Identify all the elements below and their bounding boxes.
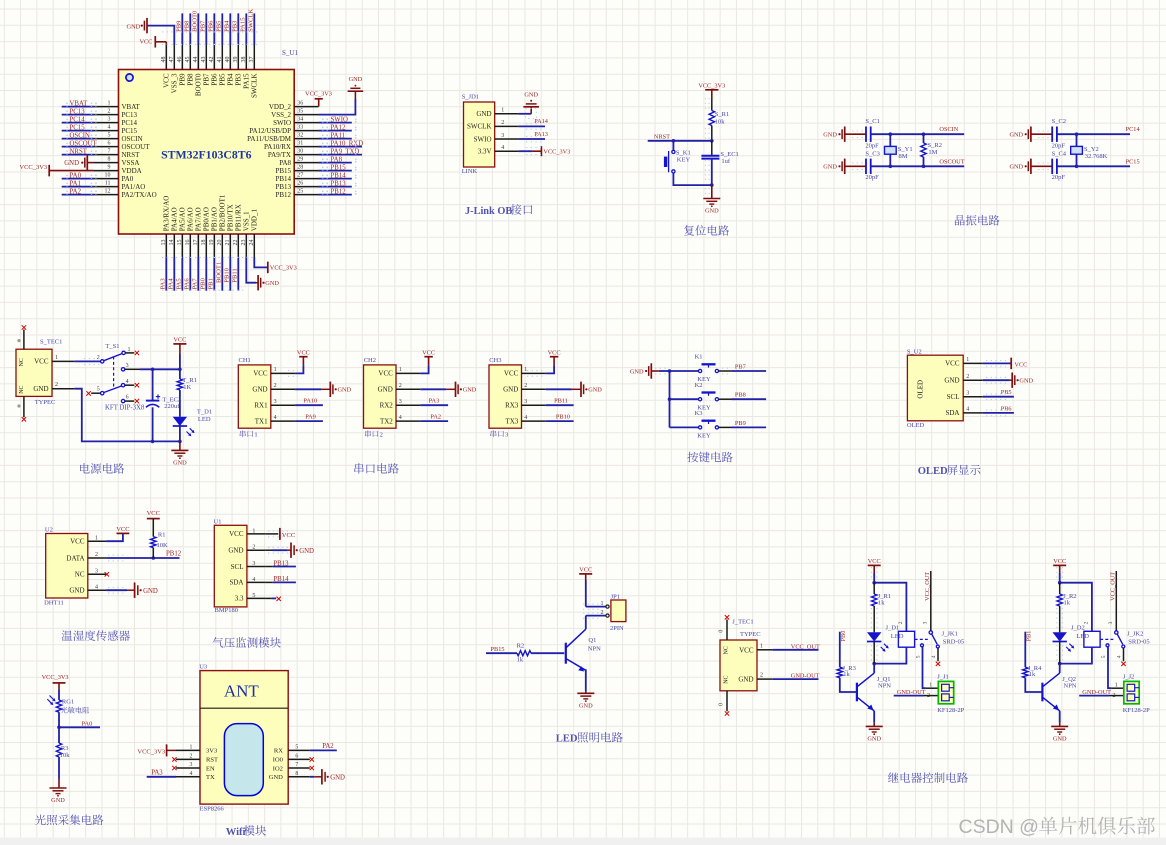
svg-text:1k: 1k <box>1064 600 1071 607</box>
svg-text:3.3: 3.3 <box>235 595 244 603</box>
svg-text:R1: R1 <box>158 531 166 538</box>
svg-text:GND: GND <box>463 387 477 394</box>
svg-text:20pF: 20pF <box>865 143 879 150</box>
svg-text:PB3: PB3 <box>235 73 243 86</box>
svg-text:2: 2 <box>966 374 969 380</box>
svg-text:NC: NC <box>19 358 25 366</box>
svg-text:3: 3 <box>108 116 111 122</box>
svg-text:2: 2 <box>274 383 277 389</box>
svg-text:11: 11 <box>105 180 111 186</box>
svg-text:LED: LED <box>556 734 578 745</box>
svg-text:VCC: VCC <box>147 510 160 517</box>
svg-text:2PIN: 2PIN <box>610 625 624 632</box>
svg-text:GND: GND <box>228 547 243 555</box>
svg-text:PB1/AO: PB1/AO <box>211 207 219 231</box>
svg-text:1M: 1M <box>928 149 937 156</box>
svg-text:2: 2 <box>601 610 604 616</box>
svg-text:PA12: PA12 <box>331 125 346 132</box>
svg-text:RX1: RX1 <box>254 402 268 410</box>
svg-text:OLED: OLED <box>916 380 924 399</box>
svg-text:2: 2 <box>252 545 255 551</box>
svg-text:VCC: VCC <box>579 566 592 573</box>
svg-text:PA0: PA0 <box>70 173 82 180</box>
svg-text:T_S1: T_S1 <box>105 343 119 350</box>
svg-text:GND: GND <box>476 110 491 118</box>
svg-text:GND: GND <box>173 460 187 467</box>
svg-text:PB12: PB12 <box>166 551 182 558</box>
svg-text:U2: U2 <box>45 527 53 534</box>
svg-text:ANT: ANT <box>224 681 260 700</box>
svg-text:OSCIN: OSCIN <box>939 126 958 133</box>
svg-text:S_Y1: S_Y1 <box>898 146 913 153</box>
svg-text:2: 2 <box>1083 621 1089 624</box>
svg-text:PA6: PA6 <box>184 278 191 290</box>
svg-text:NPN: NPN <box>1064 683 1077 690</box>
svg-text:PA2: PA2 <box>70 189 82 196</box>
svg-text:6: 6 <box>108 140 111 146</box>
svg-text:GND: GND <box>738 676 753 684</box>
svg-text:PA15: PA15 <box>240 17 247 32</box>
svg-text:Wifi: Wifi <box>226 827 246 838</box>
svg-text:6: 6 <box>126 395 129 401</box>
svg-text:4: 4 <box>1117 655 1123 658</box>
svg-text:PB6: PB6 <box>211 73 219 86</box>
svg-text:VSS_2: VSS_2 <box>271 111 291 119</box>
svg-text:PA9/TX: PA9/TX <box>268 151 291 159</box>
svg-text:28: 28 <box>297 164 303 170</box>
svg-text:GND: GND <box>705 208 719 215</box>
svg-text:LED: LED <box>1076 633 1089 640</box>
svg-text:PB9: PB9 <box>176 20 183 32</box>
svg-text:GND: GND <box>252 386 267 394</box>
svg-text:1: 1 <box>95 535 98 541</box>
svg-text:1: 1 <box>128 347 131 353</box>
svg-text:SWCLK: SWCLK <box>248 9 255 32</box>
svg-text:BOOT1: BOOT1 <box>216 262 223 283</box>
svg-text:TX2: TX2 <box>380 417 393 425</box>
svg-text:VCC: VCC <box>282 532 295 539</box>
svg-text:OSCOUT: OSCOUT <box>70 141 98 148</box>
svg-text:33: 33 <box>297 124 303 130</box>
svg-text:KFT DIP-3X8: KFT DIP-3X8 <box>105 405 145 412</box>
svg-text:220uf: 220uf <box>164 403 180 410</box>
svg-text:GND: GND <box>349 76 363 83</box>
svg-text:1k: 1k <box>843 671 850 678</box>
svg-text:45: 45 <box>185 57 191 63</box>
svg-text:NRST: NRST <box>122 151 141 159</box>
svg-text:PB7: PB7 <box>203 73 211 86</box>
svg-text:PB7: PB7 <box>735 363 746 370</box>
svg-text:VDD_1: VDD_1 <box>251 209 259 232</box>
svg-text:RX: RX <box>274 748 283 755</box>
svg-text:PB1: PB1 <box>1026 631 1033 642</box>
svg-text:LED: LED <box>198 416 211 423</box>
svg-text:4: 4 <box>966 407 969 413</box>
svg-text:23: 23 <box>241 240 247 246</box>
svg-text:21: 21 <box>225 240 231 246</box>
svg-text:VCC_3V3: VCC_3V3 <box>270 265 297 272</box>
svg-text:17: 17 <box>193 240 199 246</box>
svg-text:PA8: PA8 <box>331 157 343 164</box>
svg-text:VCC_3V3: VCC_3V3 <box>543 148 570 155</box>
svg-text:3: 3 <box>274 399 277 405</box>
svg-text:PB14: PB14 <box>273 576 289 583</box>
svg-text:39: 39 <box>233 57 239 63</box>
svg-text:1: 1 <box>274 367 277 373</box>
svg-text:PB2/BOOT1: PB2/BOOT1 <box>219 194 227 231</box>
svg-text:CSDN @: CSDN @ <box>959 816 1039 838</box>
svg-text:PB8: PB8 <box>184 20 191 32</box>
svg-text:22: 22 <box>233 240 239 246</box>
svg-text:2: 2 <box>189 754 192 760</box>
svg-text:VCC_OUT: VCC_OUT <box>924 572 931 601</box>
svg-text:VCC: VCC <box>253 370 268 378</box>
svg-text:15: 15 <box>177 240 183 246</box>
svg-text:1: 1 <box>189 745 192 751</box>
svg-text:1uf: 1uf <box>721 158 731 165</box>
svg-text:PA2: PA2 <box>430 414 441 421</box>
svg-text:GND: GND <box>1053 736 1067 743</box>
svg-text:7: 7 <box>108 148 111 154</box>
svg-text:S_R1: S_R1 <box>715 111 729 118</box>
svg-text:20: 20 <box>217 240 223 246</box>
svg-text:S_Y2: S_Y2 <box>1084 146 1099 153</box>
svg-text:RST: RST <box>206 757 218 764</box>
svg-text:OSCOUT: OSCOUT <box>122 143 151 151</box>
svg-text:PB13: PB13 <box>273 560 289 567</box>
svg-text:IO0: IO0 <box>273 757 283 764</box>
svg-text:0: 0 <box>719 630 725 633</box>
svg-text:PA1/AO: PA1/AO <box>122 183 146 191</box>
svg-text:5: 5 <box>97 387 100 393</box>
svg-text:8: 8 <box>295 771 298 777</box>
svg-text:GND: GND <box>1009 164 1023 171</box>
svg-text:VSS_3: VSS_3 <box>171 73 179 93</box>
svg-text:1: 1 <box>929 683 932 689</box>
svg-text:VCC: VCC <box>378 370 393 378</box>
svg-text:KEY: KEY <box>697 433 711 440</box>
svg-text:PA0: PA0 <box>82 720 93 727</box>
svg-text:PB14: PB14 <box>275 175 291 183</box>
svg-text:PA5: PA5 <box>176 278 183 290</box>
svg-text:PB0/AO: PB0/AO <box>203 207 211 231</box>
svg-text:PC15: PC15 <box>1126 158 1140 165</box>
svg-text:PB13: PB13 <box>275 183 291 191</box>
svg-text:PB6: PB6 <box>208 20 215 32</box>
svg-text:ESP8266: ESP8266 <box>200 806 225 813</box>
svg-text:OSCIN: OSCIN <box>122 135 143 143</box>
svg-text:CH2: CH2 <box>364 357 376 364</box>
svg-text:20pF: 20pF <box>1052 143 1066 150</box>
svg-text:1: 1 <box>601 601 604 607</box>
svg-text:T_R1: T_R1 <box>182 377 197 384</box>
svg-text:GND: GND <box>269 774 283 781</box>
svg-text:NC: NC <box>723 646 729 654</box>
svg-text:VCC_3V3: VCC_3V3 <box>137 748 165 755</box>
svg-text:VBAT: VBAT <box>70 101 89 108</box>
svg-text:3V3: 3V3 <box>206 748 217 755</box>
svg-text:3: 3 <box>189 762 192 768</box>
svg-text:3: 3 <box>501 133 504 139</box>
svg-text:25: 25 <box>297 188 303 194</box>
svg-text:VCC_3V3: VCC_3V3 <box>305 90 332 97</box>
svg-text:4: 4 <box>931 655 937 658</box>
svg-text:GND: GND <box>503 386 518 394</box>
svg-text:32.768K: 32.768K <box>1085 153 1108 160</box>
svg-text:PA3: PA3 <box>429 398 440 405</box>
svg-text:S_U1: S_U1 <box>282 49 298 57</box>
svg-text:4: 4 <box>108 124 111 130</box>
svg-text:PB8: PB8 <box>735 392 746 399</box>
svg-text:48: 48 <box>161 57 167 63</box>
svg-text:PB12: PB12 <box>331 189 347 196</box>
svg-text:GND: GND <box>588 387 602 394</box>
svg-text:NPN: NPN <box>878 683 891 690</box>
svg-text:SWIO: SWIO <box>331 117 348 124</box>
svg-text:S_U2: S_U2 <box>907 349 922 356</box>
svg-text:GND: GND <box>1009 132 1023 139</box>
svg-text:DHT11: DHT11 <box>44 599 64 606</box>
svg-text:J_JK1: J_JK1 <box>942 631 958 638</box>
svg-text:VCC: VCC <box>34 358 49 366</box>
svg-text:40: 40 <box>225 57 231 63</box>
svg-text:CH3: CH3 <box>489 357 501 364</box>
svg-text:VCC_3V3: VCC_3V3 <box>698 82 725 89</box>
svg-text:VCC_OUT: VCC_OUT <box>1110 572 1117 601</box>
svg-text:PB5: PB5 <box>1001 389 1012 396</box>
svg-text:2: 2 <box>108 108 111 114</box>
svg-text:PA15: PA15 <box>243 73 251 89</box>
svg-text:PA1: PA1 <box>70 181 81 188</box>
svg-text:14: 14 <box>169 240 175 246</box>
svg-text:RG1: RG1 <box>62 699 74 706</box>
svg-text:PA4: PA4 <box>168 278 175 290</box>
svg-text:47: 47 <box>169 57 175 63</box>
svg-text:PA2/TX/AO: PA2/TX/AO <box>122 191 157 199</box>
svg-text:TX1: TX1 <box>255 417 268 425</box>
svg-text:6: 6 <box>295 754 298 760</box>
svg-text:S_C1: S_C1 <box>865 118 879 125</box>
svg-text:BOOT0: BOOT0 <box>192 10 199 32</box>
svg-text:VCC: VCC <box>297 349 310 356</box>
svg-text:TYPEC: TYPEC <box>740 631 761 638</box>
svg-text:K2: K2 <box>695 382 703 389</box>
svg-text:37: 37 <box>249 57 255 63</box>
svg-text:8M: 8M <box>899 153 908 160</box>
svg-text:18: 18 <box>201 240 207 246</box>
svg-text:GND: GND <box>338 387 352 394</box>
svg-text:PB11/RX: PB11/RX <box>235 204 243 231</box>
svg-text:IO2: IO2 <box>273 765 283 772</box>
svg-text:PA10_RXD: PA10_RXD <box>331 141 364 148</box>
svg-text:4: 4 <box>524 415 527 421</box>
svg-text:8: 8 <box>108 156 111 162</box>
svg-text:1: 1 <box>1115 683 1118 689</box>
svg-text:VCC: VCC <box>116 526 129 533</box>
svg-text:42: 42 <box>209 57 215 63</box>
svg-text:NC: NC <box>19 385 25 393</box>
svg-text:GND: GND <box>51 797 65 804</box>
svg-text:41: 41 <box>217 57 223 63</box>
svg-text:GND: GND <box>127 23 141 30</box>
svg-text:J_D1: J_D1 <box>886 624 900 631</box>
svg-text:19: 19 <box>209 240 215 246</box>
svg-text:U3: U3 <box>199 663 207 670</box>
svg-text:KEY: KEY <box>677 156 691 163</box>
svg-text:5: 5 <box>916 655 922 658</box>
svg-text:9: 9 <box>108 164 111 170</box>
svg-text:32: 32 <box>297 132 303 138</box>
svg-text:TX: TX <box>206 774 215 781</box>
svg-text:PB5: PB5 <box>216 20 223 32</box>
svg-text:35: 35 <box>297 108 303 114</box>
svg-text:PA11: PA11 <box>331 133 346 140</box>
svg-text:4: 4 <box>126 379 129 385</box>
svg-text:VCC: VCC <box>739 646 754 654</box>
svg-text:PA5/AO: PA5/AO <box>179 207 187 231</box>
svg-text:BMP180: BMP180 <box>215 607 238 614</box>
svg-text:GND: GND <box>579 703 593 710</box>
svg-text:OSCIN: OSCIN <box>70 133 90 140</box>
svg-text:PB9: PB9 <box>179 73 187 86</box>
svg-text:10K: 10K <box>157 542 169 549</box>
svg-text:PB13: PB13 <box>331 181 347 188</box>
svg-text:4: 4 <box>189 771 192 777</box>
svg-text:KF128-2P: KF128-2P <box>1123 707 1150 714</box>
svg-text:2: 2 <box>97 355 100 361</box>
svg-text:SCL: SCL <box>231 563 244 571</box>
svg-text:SCL: SCL <box>947 393 960 401</box>
svg-text:R2: R2 <box>517 642 525 649</box>
svg-text:3: 3 <box>399 399 402 405</box>
svg-text:12: 12 <box>105 188 111 194</box>
svg-text:PA9: PA9 <box>305 414 316 421</box>
svg-text:1: 1 <box>254 432 257 439</box>
svg-text:OLED: OLED <box>918 466 948 477</box>
svg-text:S_C4: S_C4 <box>1052 150 1067 157</box>
svg-text:PA3: PA3 <box>160 278 167 290</box>
svg-text:PC14: PC14 <box>122 119 138 127</box>
svg-text:PA7/AO: PA7/AO <box>195 207 203 231</box>
svg-text:LINK: LINK <box>462 168 478 175</box>
svg-text:NRST: NRST <box>70 149 88 156</box>
svg-text:1: 1 <box>524 367 527 373</box>
svg-text:PC15: PC15 <box>70 125 86 132</box>
svg-text:4: 4 <box>399 415 402 421</box>
svg-text:TX3: TX3 <box>505 417 518 425</box>
svg-text:GND: GND <box>944 377 959 385</box>
svg-text:3: 3 <box>252 561 255 567</box>
svg-text:VSS_1: VSS_1 <box>243 211 251 231</box>
svg-text:NPN: NPN <box>588 645 601 652</box>
svg-text:GND: GND <box>64 160 79 167</box>
svg-text:GND: GND <box>823 164 837 171</box>
svg-text:SRD-05: SRD-05 <box>943 638 964 645</box>
svg-text:VCC: VCC <box>173 337 186 344</box>
svg-text:36: 36 <box>297 100 303 106</box>
svg-text:PB10: PB10 <box>556 414 570 421</box>
svg-text:SWIO: SWIO <box>273 119 291 127</box>
svg-text:PB0: PB0 <box>200 277 207 289</box>
svg-text:NC: NC <box>723 675 729 683</box>
svg-text:JP1: JP1 <box>611 593 620 600</box>
svg-text:PA2: PA2 <box>322 743 334 750</box>
svg-text:38: 38 <box>241 57 247 63</box>
svg-text:3: 3 <box>1108 621 1114 624</box>
svg-text:24: 24 <box>249 240 255 246</box>
svg-text:10k: 10k <box>715 119 726 126</box>
svg-text:SWCLK: SWCLK <box>251 74 259 99</box>
svg-text:3: 3 <box>126 363 129 369</box>
svg-text:34: 34 <box>297 116 303 122</box>
svg-text:PB15: PB15 <box>275 167 291 175</box>
svg-text:3: 3 <box>95 569 98 575</box>
svg-text:VCC: VCC <box>868 558 881 565</box>
svg-text:J_J2: J_J2 <box>1123 674 1135 681</box>
svg-text:7: 7 <box>295 762 298 768</box>
svg-text:R3: R3 <box>61 745 69 752</box>
svg-text:VDD_2: VDD_2 <box>269 103 292 111</box>
svg-text:J_JK2: J_JK2 <box>1127 631 1143 638</box>
svg-text:PB10: PB10 <box>224 267 231 282</box>
svg-text:GND-OUT: GND-OUT <box>791 673 820 680</box>
svg-text:VCC: VCC <box>1014 361 1027 368</box>
svg-text:VCC: VCC <box>229 530 244 538</box>
svg-text:PB3: PB3 <box>232 20 239 32</box>
svg-text:PA8: PA8 <box>279 159 291 167</box>
svg-text:2: 2 <box>399 383 402 389</box>
svg-text:PB7: PB7 <box>200 20 207 32</box>
svg-text:1: 1 <box>399 367 402 373</box>
svg-text:S_C3: S_C3 <box>865 150 879 157</box>
svg-text:GND: GND <box>299 548 314 555</box>
svg-text:PB11: PB11 <box>232 268 239 282</box>
svg-text:KF128-2P: KF128-2P <box>937 707 964 714</box>
svg-text:S_C2: S_C2 <box>1052 118 1066 125</box>
svg-text:PA12/USB/DP: PA12/USB/DP <box>249 127 291 135</box>
svg-text:16: 16 <box>185 240 191 246</box>
svg-text:PA7: PA7 <box>192 278 199 290</box>
svg-text:0: 0 <box>719 703 725 706</box>
svg-text:VCC_3V3: VCC_3V3 <box>42 674 69 681</box>
svg-text:5: 5 <box>295 745 298 751</box>
svg-text:VDDA: VDDA <box>122 167 142 175</box>
svg-text:20pF: 20pF <box>1052 174 1066 181</box>
svg-text:PC14: PC14 <box>1126 126 1141 133</box>
svg-text:GND: GND <box>524 91 538 98</box>
svg-text:J_D2: J_D2 <box>1071 624 1085 631</box>
svg-text:1: 1 <box>966 357 969 363</box>
svg-text:10: 10 <box>105 172 111 178</box>
svg-text:PC15: PC15 <box>122 127 138 135</box>
svg-text:PC13: PC13 <box>122 111 138 119</box>
svg-text:PA3: PA3 <box>151 770 163 777</box>
svg-text:GND-OUT: GND-OUT <box>1082 689 1111 696</box>
svg-text:29: 29 <box>297 156 303 162</box>
svg-text:GND: GND <box>265 280 279 287</box>
svg-text:GND: GND <box>33 385 48 393</box>
svg-text:1k: 1k <box>878 600 885 607</box>
svg-text:VSSA: VSSA <box>122 159 140 167</box>
svg-text:VCC: VCC <box>504 370 519 378</box>
svg-text:SDA: SDA <box>945 409 959 417</box>
svg-text:PB10/TX: PB10/TX <box>227 204 235 231</box>
svg-text:1K: 1K <box>183 384 191 391</box>
svg-text:5: 5 <box>108 132 111 138</box>
svg-text:SDA: SDA <box>229 579 243 587</box>
svg-text:2: 2 <box>760 673 763 679</box>
svg-text:PB6: PB6 <box>1001 405 1012 412</box>
